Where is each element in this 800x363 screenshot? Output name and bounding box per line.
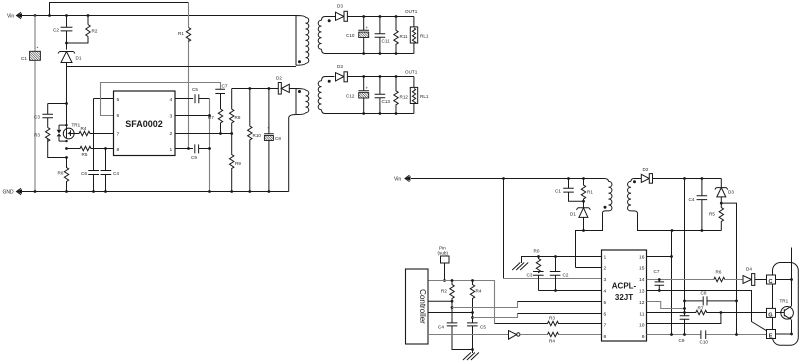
svg-text:C3: C3: [527, 273, 533, 278]
svg-text:R11: R11: [400, 34, 409, 39]
svg-text:C10: C10: [700, 340, 709, 345]
svg-text:D2: D2: [276, 76, 282, 81]
svg-text:R2: R2: [92, 29, 98, 34]
svg-text:D3: D3: [337, 4, 343, 9]
transformer T2 primary: [603, 179, 612, 214]
svg-text:11: 11: [639, 311, 644, 317]
resistor R0: [534, 249, 541, 273]
wire pin5 to C6 column: [94, 98, 114, 100]
svg-text:C6: C6: [81, 171, 87, 176]
svg-text:C4: C4: [113, 171, 119, 176]
capacitor C11: [375, 17, 390, 54]
svg-text:6: 6: [117, 113, 120, 119]
transformer T1 bias winding: [296, 89, 309, 115]
svg-text:15: 15: [639, 266, 645, 272]
svg-text:R0: R0: [534, 249, 540, 254]
svg-text:C2: C2: [53, 28, 59, 33]
svg-text:ACPL-: ACPL-: [612, 282, 637, 291]
svg-text:16: 16: [639, 254, 645, 260]
wire controller out2: [428, 312, 473, 314]
capacitor C13: [375, 77, 391, 114]
svg-text:D2: D2: [643, 167, 649, 172]
svg-text:7: 7: [604, 323, 607, 329]
svg-text:12: 12: [639, 300, 645, 306]
svg-text:C1: C1: [555, 189, 561, 194]
capacitor C5 logic: [467, 323, 486, 351]
svg-text:9: 9: [642, 334, 645, 340]
capacitor C4: [101, 149, 120, 192]
resistor R1: [581, 179, 593, 208]
resistor R2: [65, 16, 98, 45]
IGBT module outline: [773, 263, 799, 346]
resistor R1: [178, 28, 191, 42]
svg-text:R7: R7: [208, 115, 214, 120]
svg-text:R1: R1: [587, 190, 593, 195]
svg-text:(sub): (sub): [438, 251, 449, 256]
wire D3 junction to gate network vertical: [721, 203, 736, 334]
svg-text:OUT1: OUT1: [405, 9, 418, 14]
resistor R6: [714, 270, 743, 282]
diode D4: [743, 267, 767, 286]
svg-text:C11: C11: [382, 39, 391, 44]
svg-text:2: 2: [169, 131, 172, 137]
resistor R11: [394, 17, 408, 54]
svg-text:C8: C8: [701, 291, 707, 296]
wire VCC line from D2: [232, 88, 279, 90]
wire controller supply rail (gray): [428, 281, 495, 324]
svg-text:13: 13: [639, 289, 645, 295]
svg-text:Controller: Controller: [418, 289, 427, 324]
resistor R4: [74, 126, 114, 136]
svg-text:3: 3: [169, 114, 172, 120]
svg-text:4: 4: [169, 97, 172, 103]
wire pin9 VE rail (gray): [647, 330, 767, 344]
transformer T2 secondary: [628, 179, 638, 214]
capacitor C9: [679, 316, 690, 343]
diode D1 zener: [58, 43, 82, 67]
wire gray net to pin5: [452, 302, 518, 308]
svg-text:5: 5: [117, 97, 120, 103]
capacitor C7: [215, 84, 228, 110]
svg-text:R7: R7: [698, 306, 704, 311]
svg-text:14: 14: [639, 277, 645, 283]
node Vin terminal (gate drive supply): [394, 175, 411, 182]
svg-text:TR1: TR1: [780, 299, 789, 304]
svg-text:Vin: Vin: [7, 13, 14, 19]
svg-text:+: +: [366, 85, 369, 90]
wire pin7 line with resistor R3: [495, 316, 602, 326]
svg-text:C10: C10: [346, 33, 355, 38]
svg-text:R2: R2: [441, 289, 447, 294]
capacitor C1: [21, 16, 40, 192]
wire vertical to C9/pin1 line: [188, 3, 190, 149]
capacitor C9: [175, 144, 211, 160]
resistor R7: [208, 109, 223, 134]
wire drain node to primary: [67, 66, 297, 68]
resistor RL2 load: [410, 77, 429, 114]
node junction dots on Vin rail: [34, 14, 90, 17]
capacitor C4 logic: [438, 323, 473, 350]
svg-text:C1: C1: [21, 56, 27, 61]
svg-text:TR1: TR1: [72, 123, 81, 128]
capacitor C6: [81, 99, 99, 192]
svg-text:R10: R10: [253, 133, 262, 138]
transistor TR1 IGBT: [780, 299, 794, 320]
transformer T1 secondary 1: [318, 17, 334, 54]
resistor R7: [685, 306, 767, 315]
wire Vin rail to primary: [411, 178, 604, 180]
resistor RL1 load: [410, 17, 429, 54]
wire pin3 stub: [175, 115, 210, 117]
node GND terminal: [3, 188, 23, 195]
wire pin14 line (gray): [647, 279, 714, 281]
node G terminal box: [767, 308, 782, 318]
capacitor C5: [175, 87, 210, 103]
resistor R3: [34, 128, 68, 159]
svg-text:*: *: [268, 126, 270, 131]
wire top loop Vin to pin1: [50, 3, 189, 16]
diode D4 output2: [336, 64, 414, 82]
svg-text:+: +: [366, 25, 369, 30]
capacitor C12: [346, 77, 369, 114]
svg-text:5: 5: [604, 300, 607, 306]
svg-text:D4: D4: [746, 267, 752, 272]
svg-text:8: 8: [117, 147, 120, 153]
diode D1 zener: [570, 208, 590, 232]
wire collector bus: [791, 248, 793, 335]
node drain dot: [65, 102, 68, 105]
svg-text:10: 10: [639, 323, 645, 329]
wire pin13 line to E: [647, 291, 767, 331]
svg-text:C8: C8: [275, 136, 281, 141]
svg-text:R5: R5: [709, 212, 715, 217]
svg-text:RL1: RL1: [420, 34, 429, 39]
wire OUT1 bottom rail: [335, 53, 414, 55]
inverter buffer: [509, 331, 521, 340]
svg-text:R1: R1: [178, 31, 184, 36]
svg-text:G: G: [768, 312, 772, 318]
capacitor C1: [555, 179, 585, 203]
capacitor C7: [654, 269, 665, 292]
svg-text:SFA0002: SFA0002: [125, 119, 163, 129]
svg-text:OUT1: OUT1: [405, 70, 418, 75]
svg-text:32JT: 32JT: [615, 293, 633, 302]
controller box: [406, 269, 429, 344]
diode D3: [335, 4, 414, 22]
svg-text:C3: C3: [34, 115, 40, 120]
capacitor C4: [689, 179, 708, 231]
svg-text:R8: R8: [235, 115, 241, 120]
svg-text:GND: GND: [3, 189, 15, 195]
svg-text:R3: R3: [549, 316, 555, 321]
diode D2: [641, 167, 721, 183]
wire secondary return: [634, 179, 722, 231]
svg-text:C12: C12: [346, 94, 355, 99]
wire Vin rail: [22, 15, 296, 17]
svg-text:C9: C9: [191, 155, 197, 160]
resistor R8: [230, 89, 241, 134]
wire pin12 jog (gray): [647, 302, 685, 309]
node junction dots on gate-drive Vin rail: [502, 177, 585, 180]
svg-text:D3: D3: [728, 190, 734, 195]
svg-text:D3: D3: [337, 64, 343, 69]
svg-text:4: 4: [604, 289, 607, 295]
transformer T1 primary: [296, 16, 309, 66]
wire C5 down to pin3 line and GND (gray): [209, 99, 211, 192]
svg-text:R6: R6: [716, 270, 722, 275]
capacitor C3: [34, 104, 67, 128]
svg-text:C5: C5: [192, 87, 198, 92]
svg-text:C13: C13: [382, 99, 391, 104]
wire pin2 line: [175, 133, 232, 135]
svg-text:2: 2: [604, 266, 607, 272]
wire GND rail: [22, 191, 289, 193]
svg-text:8: 8: [604, 334, 607, 340]
wire primary return / pin2 net: [576, 213, 603, 268]
node Pin(sub): [438, 246, 450, 282]
diode D2: [276, 76, 296, 95]
svg-text:C9: C9: [679, 338, 685, 343]
wire controller out1: [428, 300, 452, 302]
wire pin6 loop (gray): [101, 83, 221, 116]
wire pin4 line: [539, 290, 602, 292]
node C terminal box: [767, 275, 793, 285]
capacitor C2: [550, 257, 569, 291]
gate-source zener pair: [59, 125, 67, 141]
svg-text:R4: R4: [81, 126, 87, 131]
svg-text:6: 6: [604, 311, 607, 317]
op-amp IC1 SFA0002: [114, 91, 176, 156]
wire pin16 to VE vertical: [647, 256, 672, 258]
wire supply vertical to gate node: [684, 179, 686, 316]
resistor R4: [470, 281, 482, 323]
capacitor C3: [527, 272, 544, 291]
svg-text:R3: R3: [34, 133, 40, 138]
wire pin3 line (gray): [504, 278, 602, 280]
svg-text:1: 1: [604, 254, 607, 260]
wire supply rail dots: [683, 177, 686, 180]
diode D3 zener: [715, 179, 735, 205]
capacitor C8: [264, 89, 281, 192]
wire controller bottom line (gray): [428, 334, 509, 336]
node Vin terminal: [7, 12, 22, 19]
svg-text:7: 7: [117, 131, 120, 137]
svg-text:3: 3: [604, 277, 607, 283]
capacitor C2: [53, 16, 72, 50]
svg-text:E: E: [769, 334, 773, 340]
svg-text:1: 1: [169, 147, 172, 153]
svg-text:C4: C4: [689, 197, 695, 202]
resistor R6: [58, 158, 69, 192]
svg-text:C4: C4: [438, 325, 444, 330]
wire pin11 to gate node: [647, 312, 685, 314]
svg-text:C7: C7: [222, 84, 228, 89]
transistor TR1 MOSFET: [57, 123, 81, 143]
wire OUT2 bottom rail: [335, 113, 414, 115]
svg-text:R4: R4: [549, 339, 555, 344]
svg-text:C2: C2: [563, 273, 569, 278]
svg-text:R4: R4: [476, 289, 482, 294]
capacitor C10: [346, 17, 369, 54]
wire inverter to pin8 with resistor R4: [520, 332, 602, 343]
transformer T1 secondary 2: [318, 77, 334, 114]
svg-text:C5: C5: [480, 325, 486, 330]
wire drain column: [66, 67, 68, 128]
svg-text:R12: R12: [400, 95, 409, 100]
resistor R5: [65, 146, 113, 157]
ground logic: [463, 350, 479, 361]
svg-text:D1: D1: [570, 212, 576, 217]
wire pin1 line to ground: [512, 255, 601, 270]
svg-text:R5: R5: [82, 152, 88, 157]
svg-text:R6: R6: [58, 171, 64, 176]
resistor R2: [441, 281, 454, 323]
wire VE vertical: [671, 231, 673, 335]
resistor R9: [230, 134, 242, 192]
svg-text:RL1: RL1: [420, 94, 429, 99]
svg-text:*: *: [37, 46, 39, 51]
svg-text:C: C: [769, 279, 773, 285]
capacitor C8: [685, 291, 738, 306]
svg-text:R9: R9: [235, 161, 241, 166]
svg-text:D1: D1: [76, 56, 82, 61]
svg-text:Vin: Vin: [394, 176, 401, 182]
resistor R5: [709, 203, 724, 230]
resistor R10: [248, 89, 262, 192]
svg-text:C7: C7: [654, 269, 660, 274]
node E terminal box: [767, 330, 793, 340]
wire gray net to pin6: [473, 314, 518, 318]
op-amp IC2 ACPL-32JT: [602, 250, 647, 341]
node dots OUT1 top rail: [362, 15, 397, 18]
resistor R12: [394, 77, 409, 114]
wire pin10 line: [647, 313, 721, 324]
wire bias return to GND rail: [289, 115, 296, 192]
wire Vin drop to pin3: [503, 179, 505, 279]
